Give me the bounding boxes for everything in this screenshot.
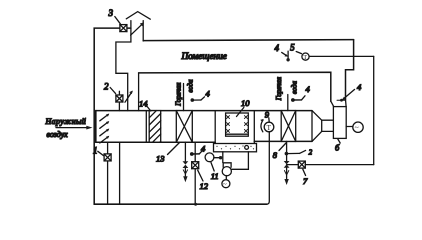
heater 8 (X block) bbox=[281, 111, 296, 142]
exhaust stack walls bbox=[116, 21, 143, 111]
label 4 (supply damper) bbox=[357, 82, 362, 92]
roof cap of exhaust stack bbox=[126, 12, 150, 20]
wire: right control vertical bbox=[373, 56, 375, 164]
label Горячая вода (left) bbox=[175, 79, 194, 107]
label 7 bbox=[303, 169, 308, 186]
wire: valve 7 to right control vertical bbox=[305, 164, 373, 166]
valve 12 bbox=[192, 162, 199, 169]
drain valve (bowtie) at heater 8 bbox=[284, 161, 290, 185]
valve 7 bbox=[298, 161, 305, 168]
fan 6 body bbox=[333, 107, 346, 139]
pipe stub 4 (upper left heater) bbox=[191, 89, 211, 102]
pump bbox=[222, 163, 231, 176]
heater 8 drain pipe bbox=[286, 141, 288, 161]
pipe stub 4 (lower left heater) bbox=[190, 144, 206, 156]
pipe stub 4 (upper right heater) bbox=[291, 84, 311, 102]
svg-text:11: 11 bbox=[211, 171, 219, 181]
second branch wire bbox=[119, 142, 121, 204]
label 2 bbox=[104, 82, 116, 94]
controller 11 circle bbox=[205, 153, 222, 162]
wire: heater8 drain to valve 7 bbox=[287, 164, 299, 166]
label 13 bbox=[156, 143, 180, 164]
spray chamber 10 outer walls bbox=[215, 111, 254, 144]
supply damper arrow bbox=[337, 89, 355, 101]
supply duct stem walls bbox=[331, 99, 346, 106]
svg-text:~: ~ bbox=[223, 180, 227, 188]
damper 2 arrow bbox=[125, 91, 133, 103]
fan throat bbox=[322, 120, 334, 131]
svg-text:T: T bbox=[303, 55, 307, 61]
label 10 bbox=[237, 98, 251, 117]
AHU duct bottom line bbox=[96, 140, 312, 143]
room thermometer stick bbox=[282, 51, 290, 61]
svg-text:7: 7 bbox=[303, 176, 308, 186]
svg-text:1: 1 bbox=[93, 146, 98, 156]
svg-text:Горячая: Горячая bbox=[175, 83, 182, 107]
water tray of chamber bbox=[214, 144, 257, 152]
pipe stub 2 (lower right heater) bbox=[285, 149, 313, 156]
label Наружный воздух bbox=[45, 117, 87, 139]
pump discharge wire bbox=[231, 152, 248, 170]
room box: bottom line / frame top bbox=[139, 72, 331, 101]
spray nozzles (x marks) bbox=[227, 116, 248, 133]
svg-text:5: 5 bbox=[290, 43, 295, 53]
label 11 bbox=[211, 163, 219, 182]
svg-text:вода: вода bbox=[187, 79, 194, 93]
svg-text:2: 2 bbox=[104, 82, 109, 92]
label 4 (room sensor) bbox=[275, 43, 280, 53]
hot water pipe to heater 13 bbox=[183, 84, 185, 111]
svg-text:4: 4 bbox=[201, 144, 206, 154]
valve 3 bbox=[120, 25, 127, 32]
damper 3 arrow in stack bbox=[131, 22, 144, 35]
junction on bottom line bbox=[194, 203, 197, 206]
valve 1 bbox=[104, 154, 111, 161]
frame left wall bbox=[138, 73, 140, 111]
hot water pipe to heater 8 bbox=[287, 95, 289, 111]
valve 1 branch wire bbox=[107, 142, 109, 204]
intake arrow bbox=[56, 126, 93, 130]
louver arrows in intake bbox=[100, 114, 110, 143]
valve 2 bbox=[116, 95, 123, 102]
wire: from sensor T5 to right control drop bbox=[309, 55, 374, 57]
svg-text:8: 8 bbox=[273, 150, 278, 160]
svg-text:T: T bbox=[267, 124, 272, 132]
label Помещение bbox=[181, 51, 227, 61]
intake closed end bbox=[95, 111, 97, 143]
svg-text:4: 4 bbox=[206, 89, 211, 99]
tray water dots bbox=[216, 145, 254, 149]
filter 14 (hatched block) bbox=[149, 111, 161, 143]
fan inlet cone bbox=[312, 111, 322, 142]
curved adjust arrow at sensor 9 bbox=[260, 119, 263, 132]
label 3 bbox=[108, 8, 121, 24]
label б bbox=[335, 139, 340, 153]
svg-text:б: б bbox=[335, 143, 340, 153]
label 8 bbox=[273, 143, 286, 160]
fan motor bbox=[346, 122, 363, 132]
label 9 bbox=[265, 110, 270, 122]
svg-text:Наружный: Наружный bbox=[45, 117, 87, 126]
label 14 bbox=[139, 99, 151, 112]
AHU duct top line bbox=[96, 110, 312, 112]
svg-text:3: 3 bbox=[108, 8, 114, 18]
room box: top line bbox=[143, 40, 353, 41]
svg-text:4: 4 bbox=[275, 43, 280, 53]
label 5 bbox=[290, 43, 301, 54]
label 12 bbox=[198, 170, 209, 191]
label Горячая вода (right) bbox=[276, 77, 298, 101]
svg-text:~: ~ bbox=[355, 123, 359, 132]
svg-text:12: 12 bbox=[200, 181, 209, 191]
svg-text:4: 4 bbox=[306, 84, 311, 94]
casing divider bbox=[145, 111, 147, 143]
valve 12 branch wire bbox=[194, 142, 196, 204]
pump motor bbox=[222, 176, 230, 189]
heater 13 drain pipe bbox=[184, 142, 186, 161]
svg-text:13: 13 bbox=[156, 154, 165, 164]
wire: bottom control line bbox=[94, 203, 267, 205]
svg-text:2: 2 bbox=[309, 149, 313, 156]
svg-text:4: 4 bbox=[357, 82, 362, 92]
svg-text:воздух: воздух bbox=[47, 130, 69, 139]
spray chamber inner shell bbox=[226, 113, 249, 136]
label 1 bbox=[93, 146, 104, 156]
svg-text:Горячая: Горячая bbox=[276, 77, 283, 101]
heater 13 (X block) bbox=[176, 111, 192, 143]
wire: recirculation line from valve 3 down left side bbox=[94, 28, 131, 204]
drain valve (bowtie) at heater 13 bbox=[183, 161, 189, 182]
svg-text:10: 10 bbox=[241, 98, 250, 108]
room box: right wall and supply duct elbow outer bbox=[346, 40, 354, 100]
pump suction pipe bbox=[222, 152, 224, 163]
wire: sensor 9 control line down to bottom bbox=[266, 132, 269, 204]
svg-text:Помещение: Помещение bbox=[181, 51, 227, 61]
valve 2 branch wire bbox=[118, 91, 120, 110]
svg-text:вода: вода bbox=[291, 80, 298, 94]
sensor 9 circle bbox=[264, 122, 274, 132]
sensor T5 circle bbox=[302, 53, 309, 61]
